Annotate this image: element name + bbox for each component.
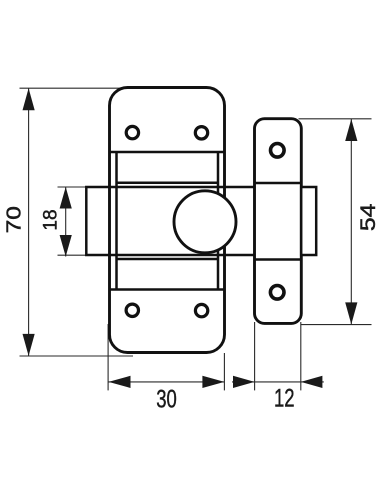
svg-text:12: 12 (274, 384, 295, 412)
svg-text:54: 54 (356, 203, 380, 231)
svg-text:18: 18 (41, 209, 62, 230)
svg-text:30: 30 (156, 385, 177, 413)
svg-text:70: 70 (2, 206, 25, 233)
